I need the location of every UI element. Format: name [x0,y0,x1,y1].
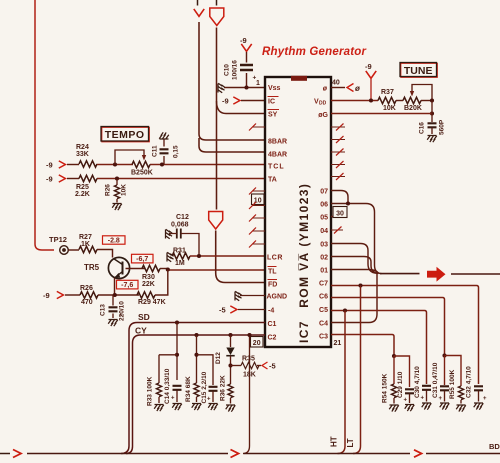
svg-text:C2: C2 [268,335,277,342]
node B20K / C16 [430,98,434,102]
supply -9 arrow (emitter rail) [43,291,50,300]
node C5/HT junction [343,308,347,312]
supply -9 arrow (TCL rail) [46,161,53,170]
wire R27 to TR5 base [97,250,113,258]
svg-text:1M: 1M [175,260,185,267]
pin number 10 box [252,194,265,205]
svg-text:R35: R35 [242,356,255,363]
svg-text:2.2K: 2.2K [75,191,90,198]
wire C3 row to R54/C29 [331,335,394,357]
resistor R33 100K [156,383,161,397]
resistor R28 10K vertical [116,179,118,186]
wire C6 node to R55 [445,356,462,387]
resistor R31 1M [172,253,190,259]
resistor R34 68K [194,383,199,397]
svg-text:B250K: B250K [131,170,153,177]
connector shield mid [209,212,223,230]
node CY/R34 junction [194,333,198,337]
resistor R35 18K [241,362,259,368]
svg-text:TR5: TR5 [84,263,100,272]
label TUNE [400,63,437,78]
svg-text:øG: øG [318,112,328,119]
ground C12 [165,229,172,239]
svg-text:+: + [421,396,425,402]
svg-text:21: 21 [334,340,342,347]
svg-text:TUNE: TUNE [404,65,433,77]
svg-text:-9: -9 [43,291,50,300]
svg-text:-9: -9 [365,62,372,71]
resistor R30 22K [142,265,160,271]
svg-text:+: + [483,396,487,402]
svg-text:SY: SY [268,112,278,119]
IC pin label overlines [268,97,280,280]
connector chevron phi [347,84,354,92]
connector chevron bottom 1 [13,450,21,458]
svg-text:-5: -5 [219,306,226,315]
supply -5 arrow (pin -4) [219,306,226,315]
wire C5 row to C30 [331,311,427,385]
wire bus to arrow [380,273,420,275]
capacitor C16 560P [428,123,437,127]
svg-text:8BAR: 8BAR [268,139,287,146]
svg-text:C13: C13 [100,304,107,316]
svg-text:R25: R25 [76,184,89,191]
connector chevron bottom 2 [231,450,239,458]
svg-text:220/10: 220/10 [119,301,126,321]
IC pin labels right [318,86,328,341]
svg-text:C16: C16 [419,122,426,134]
wire C3 node to C29 [394,356,410,387]
test point TP12 [60,246,69,255]
node C3/R54 junction [392,354,396,358]
svg-text:C11: C11 [152,145,159,157]
wire CY drop to R34/C15 [196,335,198,383]
svg-text:-5: -5 [269,362,276,371]
wire O5 stub [331,216,333,218]
IC notch [291,76,307,81]
wire VDD row [331,100,378,102]
svg-text:+: + [404,398,408,404]
potentiometer B20K [396,100,403,102]
svg-text:TEMPO: TEMPO [105,129,145,141]
svg-text:22K: 22K [142,281,155,288]
wire -9 to R24 [67,164,79,166]
capacitor C11 0,15 [160,162,164,166]
svg-text:R37: R37 [381,89,394,96]
svg-text:C14 0,33/10: C14 0,33/10 [164,368,171,404]
svg-text:C32 4,7/10: C32 4,7/10 [466,366,473,398]
svg-text:06: 06 [320,202,328,209]
wire -9 to R25 [67,178,79,180]
svg-text:C6: C6 [319,294,328,301]
svg-text:C3: C3 [319,334,328,341]
wire O7 to O6 node [331,191,348,204]
svg-text:R54 150K: R54 150K [382,373,389,403]
svg-text:20: 20 [253,340,261,347]
svg-text:R33 100K: R33 100K [147,376,154,406]
wire R29 up to TL node [155,270,168,296]
node D12/R35 junction [228,363,232,367]
svg-text:R31: R31 [173,248,186,255]
IC pin labels left [267,85,288,342]
node TA/R28 junction [115,176,119,180]
wire LT drop [353,286,361,454]
connector shield top [210,8,224,26]
svg-text:40: 40 [332,80,340,87]
svg-text:Vss: Vss [268,85,281,92]
svg-text:1K: 1K [81,241,90,248]
svg-text:07: 07 [320,189,328,196]
svg-text:IC7 ROM V̅A̅ (YM1023): IC7 ROM V̅A̅ (YM1023) [297,183,311,343]
svg-text:100/16: 100/16 [232,60,239,80]
svg-text:DD: DD [319,101,327,107]
supply -5 arrow (R35) [257,365,261,367]
capacitor C12 0,068 [177,229,181,239]
resistor R29 47K [137,292,155,298]
ground Vss rail [218,83,225,93]
svg-text:CY: CY [135,326,147,336]
svg-text:TP12: TP12 [49,235,67,244]
pin number 30 box [333,207,347,218]
voltage box -2.8 [103,236,126,245]
svg-text:02: 02 [320,255,328,262]
svg-text:4BAR: 4BAR [268,152,287,159]
svg-text:470: 470 [81,299,93,306]
svg-text:18K: 18K [243,372,256,379]
svg-text:01: 01 [320,268,328,275]
capacitor C31 0,47/10 [444,356,446,386]
NC pins left with slashes [252,127,265,244]
NC pins right with slashes [331,127,345,230]
wire shield to FD row [216,231,265,283]
transistor TR5 [108,257,129,278]
node CY tap [247,333,251,337]
svg-text:30: 30 [336,211,344,218]
svg-text:R36 22K: R36 22K [220,375,227,401]
capacitor C29 1/10 [405,389,414,393]
svg-text:-4: -4 [268,308,274,315]
wire emitter down to -9 rail [114,278,116,295]
svg-text:TL: TL [268,269,277,276]
svg-text:C4: C4 [319,321,328,328]
svg-text:+: + [171,396,175,402]
voltage box -7.6 [117,280,139,289]
wire C7 row to C32 [331,286,479,385]
supply -9 arrow (TA rail) [46,175,53,184]
wire O6 row into bus [331,204,382,274]
svg-text:ø: ø [355,84,360,93]
node CY/D12 junction [228,333,232,337]
wire D12 node to R35 [231,365,242,367]
ground R28 [112,203,122,210]
svg-text:R26: R26 [105,184,112,196]
wire CY row (C2) [126,335,265,454]
node SD/R33 junction [175,320,179,324]
svg-text:-2.8: -2.8 [108,238,120,245]
svg-text:R26: R26 [80,285,93,292]
svg-text:10K: 10K [383,105,396,112]
svg-text:R29 47K: R29 47K [138,299,166,306]
node R24/B250K junction [113,162,117,166]
resistor R36 22K [228,384,233,398]
potentiometer B250K [132,161,150,167]
svg-text:1: 1 [256,80,260,87]
node VDD junction [369,98,373,102]
svg-text:C31 0,47/10: C31 0,47/10 [432,362,439,398]
wire HT drop [338,311,346,454]
svg-text:04: 04 [320,228,328,235]
wire SD drop to R33/C14 [176,323,178,381]
resistor R54 150K [393,356,395,384]
svg-text:C30 4,7/10: C30 4,7/10 [414,366,421,398]
resistor R24 33K [79,161,97,167]
svg-text:10K: 10K [121,184,128,196]
svg-text:R55 100K: R55 100K [449,369,456,399]
node emitter junction [113,293,117,297]
wire -9 to R26 [65,294,80,296]
IC U IC7 body [265,77,331,347]
wire top bundle to 8BAR/4BAR [199,22,265,140]
ground AGND [240,295,265,297]
supply -9 arrow (C10 top) [240,36,247,45]
wire CY tap down to bottom line [243,335,250,454]
svg-text:TA: TA [268,177,277,184]
wire LCR row [190,255,265,257]
svg-text:-9: -9 [222,97,229,106]
wire bottom bus line [0,453,10,455]
capacitor C14 0,33/10 [173,386,182,390]
voltage box -6.7 [132,254,154,263]
wire R26 to emitter node and R29 [98,294,139,296]
wire C6 row to C31 [331,298,445,356]
node Vss junction [244,85,248,89]
capacitor C32 4,7/10 [474,386,483,390]
svg-text:ø: ø [323,86,328,93]
capacitor C15 2,2/10 [209,387,218,391]
wire O2 into bus [331,257,379,274]
node LCR junction [197,254,201,258]
node C6/C31 junction [442,353,446,357]
svg-text:C29 1/10: C29 1/10 [397,371,404,398]
capacitor C10 100/16 [246,52,248,88]
svg-text:B20K: B20K [404,105,422,112]
connector chevron bottom 3 [414,450,422,457]
svg-text:C15 2,2/10: C15 2,2/10 [201,371,208,403]
wire TA rail to IC pin TA [97,178,265,180]
wire phiG row [331,113,432,115]
arrow rhythm bus (red) [427,267,446,282]
svg-text:R34 68K: R34 68K [185,376,192,402]
svg-text:560P: 560P [439,119,446,135]
wire C4 row to bus drop [331,274,377,323]
wire Vss row [224,87,265,89]
svg-text:+: + [439,396,443,402]
pin number 20 box [251,337,264,348]
wire TP12 to R27 [68,249,79,251]
wire bus after arrow [451,273,500,275]
ground C13 [108,319,118,326]
svg-text:-9: -9 [240,36,247,45]
svg-text:R24: R24 [76,144,89,151]
connector chevron top (8BAR bundle) [197,0,199,6]
wire SD row (C1) [121,323,265,454]
wire TL row to IC [168,269,266,271]
svg-text:0,15: 0,15 [173,145,180,158]
svg-text:AGND: AGND [267,294,288,301]
resistor R55 100K [458,386,463,400]
resistor R26 470 [80,292,98,298]
svg-text:Rhythm Generator: Rhythm Generator [262,46,366,58]
capacitor C13 220/10 [112,295,114,318]
svg-text:SD: SD [138,312,150,322]
svg-text:BD: BD [489,442,500,451]
node C7/LT junction [358,283,362,287]
supply -9 arrow (IC pin) [222,97,229,106]
wire TCL rail to IC pin TCL [97,164,265,166]
svg-text:0,068: 0,068 [171,222,189,229]
svg-text:C10: C10 [224,64,231,76]
svg-text:C7: C7 [319,281,328,288]
wire TR5 collector to R30 [126,268,146,270]
svg-text:LT: LT [346,438,355,447]
wire O3 into bus [331,244,377,274]
svg-text:-6,7: -6,7 [136,256,148,263]
svg-text:HT: HT [330,436,339,447]
wire left vertical red feed to TP12 [35,0,54,250]
diode D12 [230,335,232,347]
wire SY branch [217,101,266,114]
svg-text:-9: -9 [46,161,53,170]
wire -9 to IC pin [241,100,265,102]
resistor R25 2.2K [79,175,97,181]
label TEMPO [101,127,149,142]
supply -9 arrow (VDD) [365,62,372,71]
wire R30 to TL node [160,268,168,270]
svg-text:IC: IC [268,99,275,106]
svg-text:33K: 33K [76,151,89,158]
svg-text:05: 05 [320,215,328,222]
wire O1 into bus [331,270,378,273]
svg-text:R27: R27 [79,234,92,241]
node O6 junction [346,201,350,205]
node TL junction [166,267,170,271]
resistor R27 1K [79,246,97,252]
svg-text:TCL: TCL [268,164,285,171]
wire phi pin 40 [331,87,345,89]
resistor R37 10K [378,97,396,103]
svg-text:-9: -9 [46,175,53,184]
svg-text:LCR: LCR [267,255,283,262]
svg-text:FD: FD [268,282,277,289]
svg-text:C12: C12 [176,214,189,221]
ground R31 [167,252,174,262]
svg-text:D12: D12 [215,352,222,364]
svg-text:C1: C1 [268,321,277,328]
svg-text:C5: C5 [319,307,328,314]
wire top shield line [216,0,218,6]
capacitor C30 4,7/10 [422,386,431,390]
svg-text:-7,6: -7,6 [121,282,133,289]
svg-text:R30: R30 [142,274,155,281]
svg-text:03: 03 [320,242,328,249]
